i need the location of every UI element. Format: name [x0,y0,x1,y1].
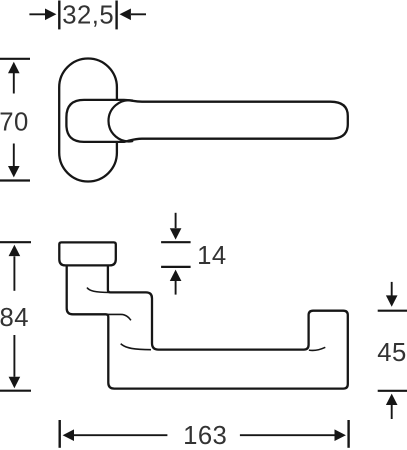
svg-text:45: 45 [377,339,406,367]
svg-text:70: 70 [0,108,29,136]
svg-text:163: 163 [183,422,227,450]
svg-text:32,5: 32,5 [62,2,114,30]
svg-text:84: 84 [0,304,29,332]
svg-text:14: 14 [197,242,226,270]
